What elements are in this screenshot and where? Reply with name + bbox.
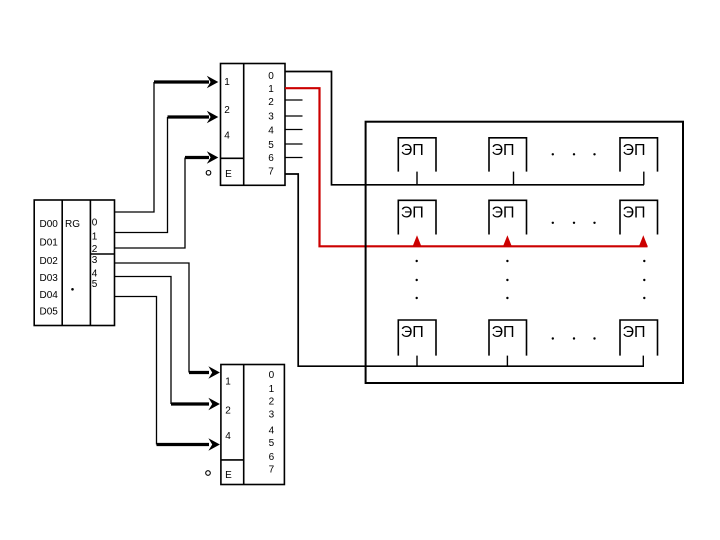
svg-text:1: 1	[269, 384, 275, 395]
register RG box	[34, 200, 114, 326]
svg-text:ЭП: ЭП	[401, 324, 424, 341]
stub row1 col2	[513, 172, 515, 185]
svg-text:D04: D04	[40, 290, 59, 301]
svg-text:5: 5	[92, 279, 98, 290]
svg-text:ЭП: ЭП	[492, 205, 515, 222]
memory matrix box	[366, 122, 683, 383]
ellipsis dots row2	[552, 222, 596, 224]
memory cell row3 col2	[489, 320, 527, 356]
red select wire decoder out1 to matrix row 2	[285, 88, 648, 246]
wire decoder out7 to matrix row 3 line	[285, 174, 644, 366]
register input labels D00-D05	[40, 219, 59, 318]
bottom decoder output labels 0-7	[269, 370, 275, 476]
wire register out2 to top decoder input 4	[115, 158, 186, 249]
wire register out1 to top decoder input 2	[115, 117, 168, 233]
red arrowhead into cell row2 col3	[639, 235, 648, 246]
wire register out4 to bottom decoder input 2	[115, 277, 172, 405]
bottom decoder input labels 1,2,4,E	[225, 377, 232, 482]
svg-text:D00: D00	[40, 219, 59, 230]
top decoder output stubs 2-6	[285, 100, 303, 158]
svg-text:1: 1	[92, 232, 98, 243]
svg-text:6: 6	[268, 153, 274, 164]
svg-text:7: 7	[269, 465, 275, 476]
svg-text:D05: D05	[40, 306, 59, 317]
red arrowhead into cell row2 col2	[503, 235, 512, 246]
svg-text:7: 7	[268, 166, 274, 177]
memory cell row2 col3	[620, 200, 658, 234]
svg-text:5: 5	[268, 140, 274, 151]
vertical dots col2	[506, 260, 508, 299]
svg-text:RG: RG	[65, 219, 80, 230]
svg-text:ЭП: ЭП	[492, 142, 515, 159]
svg-text:D01: D01	[40, 238, 59, 249]
memory cell row1 col3	[620, 138, 658, 172]
top decoder output labels 0-7	[268, 71, 274, 177]
svg-text:ЭП: ЭП	[623, 205, 646, 222]
red arrowhead into cell row2 col1	[413, 235, 422, 246]
arrow into bottom decoder input 4	[157, 438, 220, 451]
arrow into top decoder input 1	[154, 76, 218, 89]
svg-text:1: 1	[268, 84, 274, 95]
svg-text:3: 3	[268, 111, 274, 122]
svg-text:1: 1	[224, 77, 230, 88]
svg-text:0: 0	[92, 218, 98, 229]
svg-text:6: 6	[269, 452, 275, 463]
arrow into bottom decoder input 2	[171, 398, 220, 411]
svg-text:3: 3	[92, 255, 98, 266]
ellipsis dots row1	[552, 153, 596, 155]
register output pin labels 0-5	[92, 218, 98, 290]
svg-text:2: 2	[269, 397, 275, 408]
wire register out0 to top decoder input 1	[115, 82, 155, 212]
memory cell row3 col3	[620, 320, 658, 356]
svg-text:5: 5	[269, 438, 275, 449]
svg-text:D03: D03	[40, 273, 59, 284]
top decoder DC1 box	[221, 64, 286, 186]
stray dot in register middle column	[71, 288, 74, 291]
stub row1 col1	[416, 172, 418, 185]
svg-text:4: 4	[268, 125, 274, 136]
svg-text:ЭП: ЭП	[492, 324, 515, 341]
svg-text:ЭП: ЭП	[401, 205, 424, 222]
bottom decoder enable bubble	[206, 471, 211, 476]
ellipsis dots row3	[552, 337, 596, 339]
svg-text:2: 2	[268, 97, 274, 108]
svg-text:4: 4	[92, 268, 98, 279]
wire register out5 to bottom decoder input 4	[115, 297, 157, 445]
svg-text:E: E	[225, 169, 232, 180]
wire decoder out0 to matrix row 1 line	[285, 72, 644, 185]
svg-text:2: 2	[92, 244, 98, 255]
svg-text:4: 4	[269, 426, 275, 437]
svg-text:4: 4	[225, 431, 231, 442]
vertical dots col1	[416, 260, 418, 299]
svg-text:0: 0	[269, 370, 275, 381]
memory cell row2 col2	[489, 200, 527, 234]
top decoder input labels 1,2,4,E	[224, 77, 232, 180]
svg-text:2: 2	[225, 406, 231, 417]
svg-text:1: 1	[225, 377, 231, 388]
memory cell row3 col1	[398, 320, 436, 356]
wire register out3 to bottom decoder input 1	[115, 263, 190, 373]
stub row3 col3	[642, 356, 644, 367]
stub row3 col1	[416, 356, 418, 367]
svg-text:ЭП: ЭП	[623, 324, 646, 341]
stub row1 col3	[643, 172, 645, 185]
stub row3 col2	[506, 356, 508, 367]
svg-text:4: 4	[224, 131, 230, 142]
svg-text:E: E	[225, 470, 232, 481]
svg-text:0: 0	[268, 71, 274, 82]
svg-text:ЭП: ЭП	[401, 142, 424, 159]
memory cell row1 col2	[489, 138, 527, 172]
bottom decoder DC2 box	[221, 365, 285, 485]
svg-text:3: 3	[269, 410, 275, 421]
arrow into top decoder input 2	[168, 111, 219, 124]
svg-text:2: 2	[224, 105, 230, 116]
arrow into top decoder input 4	[185, 151, 218, 164]
top decoder enable bubble	[206, 171, 211, 176]
svg-text:ЭП: ЭП	[623, 142, 646, 159]
svg-text:D02: D02	[40, 256, 59, 267]
memory cell row1 col1	[398, 138, 436, 172]
memory cell row2 col1	[398, 200, 436, 234]
arrow into bottom decoder input 1	[189, 366, 220, 379]
vertical dots col3	[643, 260, 645, 299]
